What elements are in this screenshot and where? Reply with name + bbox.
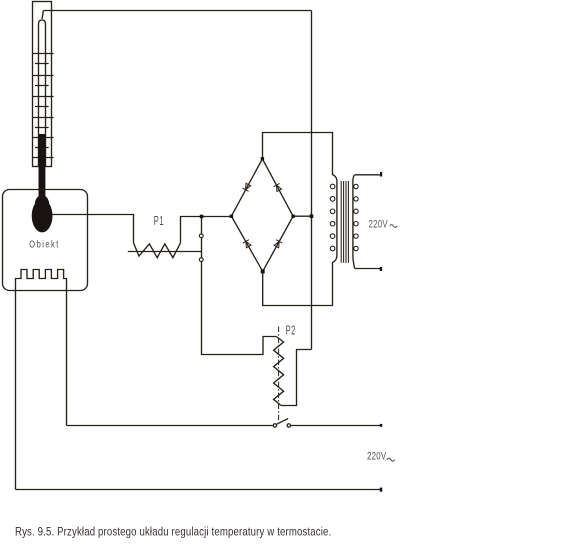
thermometer capillary [39, 20, 46, 167]
transformer secondary loops [354, 184, 358, 250]
wire bridge right to bus node [293, 215, 311, 217]
wire P1 node drop and run to P2 top [202, 217, 277, 355]
tilde bottom [387, 458, 395, 461]
node P1 junction [200, 215, 204, 219]
wire bulb to P1 [52, 215, 134, 243]
svg-text:Rys. 9.5. Przykład prostego uk: Rys. 9.5. Przykład prostego układu regul… [15, 526, 331, 539]
wire bridge bottom to transformer primary bottom [263, 262, 333, 306]
bulb neck flare [35, 195, 49, 214]
svg-text:Obiekt: Obiekt [29, 238, 59, 249]
transformer primary winding body [333, 175, 337, 263]
wire P1 right riser to bridge left [181, 217, 232, 243]
wire secondary top lead [355, 174, 381, 176]
Obiekt box [3, 190, 88, 291]
wire bottom line [16, 489, 381, 491]
label 220V top [369, 218, 389, 231]
wire bridge top to transformer primary top [263, 133, 333, 176]
node bridge right vertex [291, 215, 294, 218]
plug contact lower on P1 wiper drop [199, 258, 203, 262]
svg-text:220V: 220V [369, 218, 389, 231]
terminal secondary top [380, 172, 382, 177]
thermometer contact wire [42, 11, 43, 20]
transformer primary loops [330, 184, 335, 251]
resistor P1 zigzag [134, 243, 181, 258]
svg-text:P1: P1 [154, 214, 164, 229]
terminal switch line right [380, 424, 383, 427]
terminal secondary bottom [380, 267, 382, 271]
node bus junction [310, 214, 314, 218]
tilde top [390, 225, 397, 228]
label P2 [286, 324, 296, 339]
wire top horizontal [43, 10, 311, 12]
wire secondary bottom lead [355, 268, 381, 270]
thermometer scale short lines [35, 64, 49, 148]
transformer secondary winding body [353, 175, 355, 268]
switch lever [277, 419, 289, 425]
thermometer scale long lines [32, 54, 54, 158]
resistor P2 zigzag [274, 337, 284, 406]
wire bus step down to P2 bottom [281, 350, 312, 406]
wire right vertical bus [311, 11, 313, 350]
diode D1 upper-left [242, 183, 251, 191]
diode D4 lower-right [273, 240, 282, 248]
diode D3 lower-left [243, 240, 252, 248]
terminal bottom line right [380, 488, 383, 492]
plug contact upper on P1 wiper drop [199, 234, 203, 238]
node bridge bottom vertex [261, 269, 265, 273]
caption [15, 526, 331, 539]
heater element [16, 270, 67, 490]
svg-text:P2: P2 [286, 324, 296, 339]
thermometer bulb [32, 199, 53, 232]
diode D2 upper-right [273, 183, 282, 191]
P1 wiper line [128, 251, 202, 253]
label Obiekt [29, 238, 59, 249]
bridge diamond edges [231, 159, 293, 272]
wire switch line left [67, 425, 273, 427]
svg-text:220V: 220V [367, 450, 387, 463]
thermometer outer tube [33, 2, 52, 167]
label P1 [154, 214, 164, 229]
switch contact right [287, 424, 290, 427]
node bridge left vertex [230, 215, 233, 218]
wire switch line right [291, 425, 380, 427]
transformer core laminations [341, 181, 348, 263]
switch contact left [273, 424, 276, 427]
node bridge top vertex [261, 157, 264, 160]
P2 axis dash-dot line [278, 327, 280, 421]
label 220V bottom [367, 450, 387, 463]
mercury column [39, 134, 46, 206]
